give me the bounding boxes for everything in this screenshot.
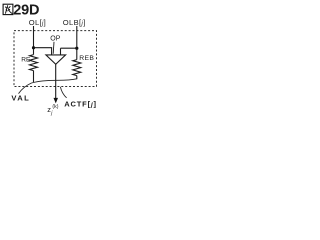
svg-text:VAL: VAL [11,93,30,102]
svg-text:OLB[j]: OLB[j] [63,18,86,27]
svg-text:REB: REB [79,55,94,62]
svg-text:OL[j]: OL[j] [29,18,46,27]
svg-text:ACTF[j]: ACTF[j] [64,99,97,108]
svg-text:OP: OP [50,35,60,42]
svg-text:29D: 29D [13,3,39,19]
svg-text:(k): (k) [52,104,58,110]
svg-text:RE: RE [21,57,31,64]
